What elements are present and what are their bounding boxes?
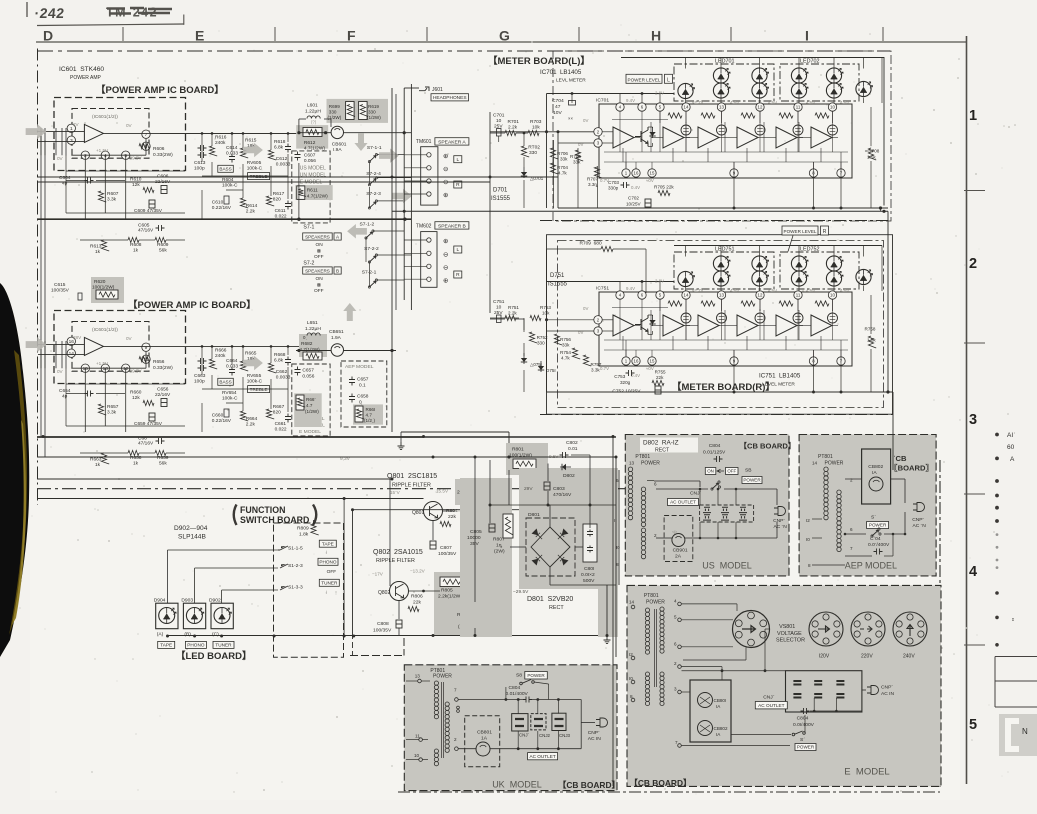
svg-text:R66I: R66I [366, 407, 376, 412]
svg-text:3.3ȵ: 3.3ȵ [588, 182, 598, 187]
svg-text:R668: R668 [274, 352, 286, 358]
svg-text:5: 5 [674, 615, 677, 620]
LED left outrigger meter R [678, 271, 693, 286]
svg-text:△075I: △075I [530, 362, 542, 367]
svg-text:S8: S8 [516, 673, 522, 679]
wire lower amp bus [37, 436, 424, 438]
pins top IC701 [616, 103, 624, 111]
svg-text:SPEAKER B: SPEAKER B [438, 223, 466, 229]
svg-text:D801: D801 [528, 512, 540, 518]
wire input left [38, 131, 84, 133]
svg-text:LEVL METER: LEVL METER [556, 78, 586, 84]
svg-text:240k: 240k [215, 353, 226, 359]
svg-text:1k: 1k [95, 462, 101, 468]
svg-text:TAPE: TAPE [322, 541, 334, 546]
highlight patch R611 [295, 185, 332, 200]
svg-text:AC ˉN: AC ˉN [913, 523, 927, 529]
wire across top from amp [160, 132, 296, 134]
svg-text:AC OUTLET: AC OUTLET [758, 703, 784, 708]
svg-text:PHONO: PHONO [187, 643, 205, 648]
svg-text:33k: 33k [562, 343, 570, 348]
svg-text:CNJ3: CNJ3 [559, 733, 571, 738]
svg-text:D751: D751 [550, 273, 565, 279]
scan arrow left [347, 224, 367, 239]
svg-text:−13.2V: −13.2V [410, 569, 426, 574]
svg-text:4.6V: 4.6V [840, 288, 849, 293]
svg-text:R756: R756 [560, 337, 571, 342]
wire right column to CB boards [892, 470, 894, 479]
transistor Q801 [424, 502, 443, 521]
svg-text:IS1555: IS1555 [548, 282, 568, 288]
svg-text:C606: C606 [157, 174, 169, 180]
svg-text:D802: D802 [563, 473, 575, 479]
svg-text:FUNCTION: FUNCTION [240, 505, 285, 515]
svg-text:4.6V: 4.6V [806, 288, 815, 293]
meter feed wires R [490, 318, 505, 320]
svg-text:S7-2-4: S7-2-4 [366, 171, 381, 177]
svg-text:C657: C657 [302, 368, 314, 374]
svg-text:D903: D903 [181, 598, 193, 604]
highlight patch PS lower strip [598, 589, 618, 637]
svg-text:BASS: BASS [219, 380, 231, 385]
svg-text:D802 RA-IZ: D802 RA-IZ [643, 440, 679, 447]
ground PS [604, 636, 611, 644]
svg-text:R755: R755 [655, 370, 666, 375]
svg-text:AC IN: AC IN [881, 691, 895, 697]
right margin bullet list [995, 433, 999, 647]
LED in LED702 [826, 68, 841, 83]
svg-text:11: 11 [796, 105, 801, 110]
svg-text:BASS: BASS [219, 167, 231, 172]
transistor Q802 [390, 582, 409, 601]
label PHONO [318, 558, 338, 565]
svg-text:POWER: POWER [743, 478, 761, 483]
svg-text:N: N [1022, 727, 1028, 736]
meter board R outline [547, 235, 893, 415]
svg-text:Q802 2SA1015: Q802 2SA1015 [373, 549, 423, 556]
svg-text:CNJ2: CNJ2 [539, 733, 551, 738]
svg-text:AIˈ: AIˈ [1007, 431, 1015, 439]
schematic border bottom-left chain [37, 488, 630, 490]
svg-text:500V: 500V [583, 578, 595, 584]
svg-text:C703: C703 [608, 180, 619, 185]
svg-text:POWER LEVEL: POWER LEVEL [628, 78, 661, 83]
svg-text:1k: 1k [95, 249, 101, 255]
header underline [37, 24, 184, 26]
wire meter R to CB column [887, 211, 889, 392]
switch wires [368, 162, 370, 185]
e transformer pins [631, 605, 635, 609]
highlight patch R801 [506, 443, 548, 475]
svg-text:B: B [336, 268, 339, 273]
capacitor C804 0.01/400V e [801, 708, 810, 714]
svg-text:3.3k: 3.3k [107, 197, 117, 203]
dashed model box US/UN/E [292, 151, 330, 223]
svg-text:3: 3 [674, 687, 677, 692]
svg-text:C704: C704 [552, 98, 564, 104]
svg-text:2.8V: 2.8V [655, 91, 664, 96]
svg-text:<ʃ>: <ʃ> [672, 530, 678, 534]
svg-text:H: H [651, 28, 661, 44]
svg-text:CB801: CB801 [477, 730, 492, 736]
svg-text:【CB BOARD】: 【CB BOARD】 [630, 778, 692, 788]
meter R left wiring [546, 249, 548, 392]
interstage resistors IC701 [668, 113, 682, 118]
wire main bus upper-left to meters [37, 176, 558, 178]
svg-text:D902—904: D902—904 [174, 525, 208, 532]
svg-text:15ˉV: 15ˉV [390, 490, 401, 495]
svg-text:7: 7 [850, 546, 853, 551]
svg-text:OFF: OFF [314, 288, 324, 294]
outlet CNJ3 uk [552, 713, 566, 730]
svg-text:15.5V: 15.5V [436, 489, 449, 494]
svg-text:C662: C662 [276, 369, 288, 375]
resistor R611 4.7(1/2W) [297, 186, 305, 200]
resistor R606 [139, 144, 150, 149]
svg-text:2A: 2A [675, 554, 682, 560]
svg-text:VS801: VS801 [779, 624, 795, 630]
svg-text:2.2k: 2.2k [246, 209, 256, 215]
svg-text:240k: 240k [215, 140, 226, 146]
LED right outrigger meter R [856, 269, 871, 284]
svg-text:⊕: ⊕ [443, 192, 449, 199]
svg-text:3: 3 [70, 138, 73, 144]
svg-text:R665: R665 [245, 351, 257, 357]
svg-text:0.0ˉ/400V: 0.0ˉ/400V [868, 542, 890, 548]
svg-text:11: 11 [415, 734, 420, 739]
svg-text:11: 11 [796, 293, 801, 298]
svg-text:R612: R612 [304, 140, 316, 146]
svg-text:0V: 0V [583, 306, 588, 311]
svg-text:D801 S2VB20: D801 S2VB20 [527, 596, 573, 603]
LED wiring meter R [685, 246, 687, 257]
svg-text:【CB BOARD】: 【CB BOARD】 [739, 441, 795, 451]
grid row ticks right [964, 190, 985, 192]
input stage pins IC751 [594, 316, 602, 324]
svg-text:C612: C612 [276, 156, 288, 162]
outlet CNJ2 uk [531, 714, 546, 730]
svg-text:330: 330 [329, 110, 337, 115]
meter L left wiring [490, 131, 594, 133]
svg-text:D902: D902 [209, 598, 221, 604]
svg-text:UN MODEL: UN MODEL [300, 173, 327, 179]
svg-text:47: 47 [555, 104, 561, 110]
IC box IC701 [599, 104, 852, 178]
svg-text:R608: R608 [130, 242, 142, 248]
svg-text:R758: R758 [865, 327, 876, 332]
svg-text:⊕: ⊕ [443, 278, 449, 285]
plug CNP1 AC IN uk [596, 718, 608, 727]
svg-text:↓: ↓ [325, 550, 328, 556]
svg-text:6.8k: 6.8k [274, 145, 284, 151]
schematic outer border left [37, 49, 39, 506]
svg-text:47/16V: 47/16V [138, 441, 154, 447]
wire bottom mesh [80, 239, 128, 241]
svg-text:28V: 28V [73, 335, 82, 340]
svg-text:IS1555: IS1555 [491, 196, 511, 202]
wire L651 row [296, 350, 331, 352]
outlet block e [786, 671, 862, 712]
uk top wire [458, 699, 523, 701]
svg-text:R616: R616 [215, 135, 227, 141]
LED in LED751 [752, 256, 767, 271]
voltage selector VS801 [733, 611, 770, 648]
svg-text:(1/2W): (1/2W) [305, 409, 319, 414]
svg-text:12k: 12k [132, 182, 140, 188]
svg-text:TUNER: TUNER [321, 581, 338, 586]
svg-text:−17V: −17V [372, 572, 384, 577]
svg-text:(1/2ˏ): (1/2ˏ) [364, 418, 375, 423]
us wiring [647, 480, 654, 482]
switch aep [872, 530, 879, 536]
svg-text:PT801: PT801 [818, 454, 833, 460]
svg-text:PT801: PT801 [644, 593, 659, 599]
svg-text:0.01/400V: 0.01/400V [506, 691, 529, 697]
svg-text:(?): (?) [311, 120, 317, 125]
svg-text:6: 6 [850, 527, 853, 532]
svg-text:C701: C701 [493, 113, 505, 119]
svg-text:R706: R706 [557, 151, 568, 156]
svg-text:OFF: OFF [327, 569, 337, 575]
pins IC601b [67, 337, 75, 345]
svg-text:C607: C607 [304, 153, 316, 159]
svg-text:HEADPHONES: HEADPHONES [433, 95, 467, 101]
label PHONO [185, 641, 206, 648]
svg-text:TM602: TM602 [416, 223, 432, 229]
svg-text:1.22µH: 1.22µH [305, 326, 321, 332]
IC601 inner outline [72, 109, 149, 159]
svg-text:↓: ↓ [325, 590, 328, 596]
svg-text:220V: 220V [861, 654, 873, 660]
wire output [103, 345, 160, 347]
svg-text:22k: 22k [656, 375, 664, 380]
svg-text:C658: C658 [357, 394, 369, 400]
svg-text:POWER: POWER [641, 461, 660, 467]
svg-text:16: 16 [634, 171, 639, 176]
svg-text:SPEAKERS: SPEAKERS [305, 268, 330, 273]
svg-text:5: 5 [969, 717, 977, 733]
svg-text:POWER: POWER [869, 523, 887, 528]
resistor R619 330 (1/2W) [359, 102, 368, 120]
resistor R661 4.7 (1/2W) right [355, 406, 363, 422]
label TAPE [158, 641, 175, 648]
svg-text:0.0I×2: 0.0I×2 [581, 572, 595, 578]
resistor R661 4.7(1/2W) left [296, 395, 304, 410]
svg-text:3.3k: 3.3k [107, 410, 117, 416]
label TREBLE [248, 173, 270, 180]
svg-text:C663: C663 [194, 373, 206, 379]
svg-text:【METER BOARD(R)】: 【METER BOARD(R)】 [672, 381, 775, 393]
svg-text:0.056: 0.056 [302, 374, 314, 380]
svg-text:I20V: I20V [819, 654, 830, 660]
LED in LED751 [713, 271, 728, 286]
svg-text:RV654: RV654 [222, 390, 237, 396]
svg-text:2: 2 [654, 533, 657, 538]
highlight patch R661 right [353, 404, 383, 424]
label SPEAKERS A [303, 233, 333, 240]
svg-text:R705 22k: R705 22k [654, 185, 674, 190]
svg-text:TAPE: TAPE [160, 643, 172, 648]
scan header title -242 [34, 5, 158, 21]
svg-text:R805: R805 [441, 588, 453, 594]
svg-text:D: D [43, 28, 53, 44]
svg-text:2.2k: 2.2k [246, 422, 256, 428]
svg-text:AC IN: AC IN [588, 736, 602, 742]
meter R bottom bus [547, 391, 894, 393]
svg-text:R: R [823, 229, 827, 235]
svg-text:R699: R699 [329, 104, 340, 109]
svg-text:CB80I: CB80I [714, 698, 727, 703]
svg-text:10k: 10k [542, 311, 550, 316]
svg-text:2: 2 [969, 256, 977, 272]
svg-text:A: A [1010, 456, 1015, 463]
breaker CB601 1.9A [331, 126, 343, 138]
PS wires [424, 436, 617, 438]
svg-text:100(1/2W): 100(1/2W) [509, 453, 532, 459]
capacitor C801 0.01X2 500V [583, 524, 597, 562]
svg-text:IC751: IC751 [596, 286, 609, 292]
LED box LED751 [674, 252, 774, 289]
svg-text:0.22/16V: 0.22/16V [212, 418, 232, 424]
svg-text:R659: R659 [157, 455, 169, 461]
highlight patch R803 [455, 479, 512, 505]
svg-text:10: 10 [830, 105, 835, 110]
scan arrow down [354, 133, 367, 151]
pins bottom IC701 [622, 169, 630, 177]
AEP model CB board plate [799, 435, 936, 576]
tone wires [201, 133, 203, 162]
svg-text:L: L [667, 78, 670, 84]
ripple filter wires [353, 509, 614, 511]
svg-text:7: 7 [145, 132, 148, 138]
svg-text:LEVEL METER: LEVEL METER [762, 382, 795, 388]
breaker CB801 1A uk [465, 716, 500, 767]
LED in LED702 [791, 83, 806, 98]
svg-text:12: 12 [758, 293, 763, 298]
rotary spare 240V [893, 612, 927, 646]
scan arrow right 1 [379, 148, 399, 163]
svg-text:330p: 330p [608, 186, 619, 191]
svg-text:⊕: ⊕ [443, 153, 449, 160]
svg-text:POWER: POWER [433, 674, 452, 680]
svg-text:R703: R703 [530, 119, 542, 125]
svg-text:S7-1-2: S7-1-2 [360, 222, 375, 228]
bridge rectifier D801 [526, 518, 575, 576]
svg-text:【LED BOARD】: 【LED BOARD】 [176, 650, 251, 662]
speaker wires [404, 154, 427, 156]
wire lower mesh [66, 383, 185, 385]
svg-text:0.4V: 0.4V [631, 373, 640, 378]
internal wiring IC751 [604, 339, 848, 341]
svg-text:(B): (B) [184, 632, 191, 638]
svg-text:0V: 0V [57, 156, 64, 161]
svg-text:R757: R757 [591, 362, 602, 367]
plug CNP1 AC IN us [774, 507, 786, 516]
svg-text:4.7: 4.7 [366, 413, 373, 418]
svg-text:G: G [499, 28, 510, 44]
svg-text:·242: ·242 [34, 5, 66, 21]
wire PS bus verticals [612, 436, 614, 662]
svg-text:I: I [805, 28, 809, 44]
supply rail IC701 [547, 93, 675, 95]
svg-text:R704: R704 [557, 165, 568, 170]
svg-text:L601: L601 [307, 103, 318, 109]
svg-text:Sˊ: Sˊ [800, 737, 805, 743]
svg-text:RV605: RV605 [247, 160, 262, 166]
svg-text:R707: R707 [587, 177, 598, 182]
IC601b inner outline [72, 322, 149, 372]
svg-text:R609: R609 [157, 242, 169, 248]
wire output [103, 132, 160, 134]
svg-text:0ˌ: 0ˌ [303, 335, 307, 340]
svg-text:SLP144B: SLP144B [178, 534, 206, 541]
svg-text:13: 13 [719, 105, 724, 110]
svg-text:820: 820 [273, 197, 281, 203]
meter R chain border bottom [540, 414, 893, 416]
tone wires [201, 346, 203, 375]
svg-text:0.1: 0.1 [359, 383, 366, 389]
svg-text:8: 8 [808, 563, 811, 568]
schematic outer border top (chain line) [37, 50, 890, 52]
wire meter bottom drop to AEP [880, 208, 882, 211]
svg-text:(1/2W): (1/2W) [367, 115, 381, 120]
svg-text:330: 330 [537, 341, 545, 346]
svg-text:2.2k(1/2W): 2.2k(1/2W) [438, 594, 462, 600]
svg-text:C661: C661 [275, 421, 287, 427]
svg-text:I0: I0 [629, 676, 633, 681]
svg-text:330: 330 [368, 110, 376, 115]
LED in LED752 [826, 271, 841, 286]
LED in LED751 [752, 271, 767, 286]
svg-text:C753: C753 [614, 374, 625, 379]
E model CB board plate [627, 585, 941, 786]
interstage trimmers IC701 [681, 125, 691, 135]
LED in LED702 [826, 83, 841, 98]
svg-text:R617: R617 [273, 191, 285, 197]
meter feed wires L [490, 132, 505, 134]
svg-text:【METER BOARD(L)】: 【METER BOARD(L)】 [488, 55, 590, 67]
grid column letters [43, 28, 809, 44]
svg-text:0.01: 0.01 [568, 446, 578, 452]
highlight patch R609/R619 [327, 99, 389, 123]
svg-text:R666: R666 [215, 348, 227, 354]
svg-text:POWER: POWER [527, 673, 545, 678]
svg-text:330: 330 [529, 150, 537, 156]
svg-text:F: F [347, 28, 356, 44]
svg-text:OFF: OFF [727, 469, 736, 474]
svg-text:R656: R656 [153, 359, 165, 365]
LED box LED701 [674, 64, 774, 101]
svg-text:【CB BOARD】: 【CB BOARD】 [558, 780, 620, 790]
svg-text:S1-3-3: S1-3-3 [288, 585, 303, 591]
label AC OUTLET uk [528, 753, 558, 760]
scan arrow up lower [343, 303, 356, 321]
svg-text:6.8k: 6.8k [274, 358, 284, 364]
svg-text:C804: C804 [709, 443, 721, 449]
plug CNP1 AC IN e [867, 686, 879, 695]
svg-text:2V: 2V [73, 122, 80, 127]
svg-text:D701: D701 [493, 188, 508, 194]
diode D751 [538, 366, 544, 370]
svg-text:7: 7 [675, 740, 678, 745]
wire feedback bottom [71, 154, 146, 156]
svg-text:0.4V: 0.4V [631, 185, 640, 190]
svg-text:R667: R667 [273, 404, 285, 410]
svg-text:Cˊ04: Cˊ04 [870, 536, 881, 542]
meter area right border chain [939, 460, 941, 789]
svg-text:470/16V: 470/16V [553, 492, 572, 498]
svg-text:R613: R613 [90, 244, 102, 250]
